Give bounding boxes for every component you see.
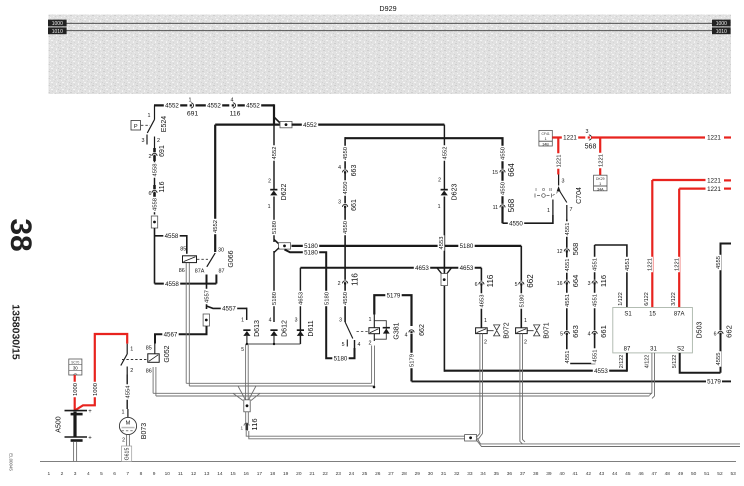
svg-text:3: 3 xyxy=(74,471,77,477)
svg-text:5: 5 xyxy=(342,342,345,348)
svg-text:1: 1 xyxy=(268,204,271,210)
svg-text:11: 11 xyxy=(493,205,498,211)
svg-text:5179: 5179 xyxy=(707,379,721,386)
svg-text:4550: 4550 xyxy=(509,220,523,227)
svg-text:M: M xyxy=(126,420,131,426)
grid baseline xyxy=(40,461,736,463)
svg-text:4: 4 xyxy=(87,471,90,477)
diode D613 xyxy=(241,318,261,345)
wire label 4552 a xyxy=(164,102,180,110)
node label 1000 left xyxy=(48,20,67,28)
svg-text:1: 1 xyxy=(241,318,244,324)
svg-text:1221: 1221 xyxy=(707,178,721,185)
svg-text:4558: 4558 xyxy=(153,198,159,211)
relay G381 xyxy=(369,315,401,347)
svg-text:A500: A500 xyxy=(56,416,63,432)
svg-text:568: 568 xyxy=(585,144,597,151)
svg-text:4551: 4551 xyxy=(565,294,571,307)
node label 1010 right xyxy=(712,27,731,35)
drawing number 1358030/15 xyxy=(9,304,21,360)
svg-text:4551: 4551 xyxy=(593,294,599,307)
wire label 4552 b xyxy=(206,102,222,110)
svg-text:116: 116 xyxy=(159,181,166,192)
pair from G066 pin86 xyxy=(186,263,189,386)
svg-text:12: 12 xyxy=(191,471,197,477)
svg-text:6: 6 xyxy=(714,332,717,338)
wire 4552 top run xyxy=(154,104,274,124)
splice on 4552 xyxy=(215,117,292,128)
svg-text:S2: S2 xyxy=(677,347,685,353)
svg-text:D623: D623 xyxy=(451,184,458,201)
svg-text:44: 44 xyxy=(612,471,618,477)
svg-text:2: 2 xyxy=(61,471,64,477)
svg-text:49: 49 xyxy=(678,471,684,477)
wire 5180 upper xyxy=(271,197,278,243)
wire 4558 b xyxy=(151,197,158,215)
svg-text:30: 30 xyxy=(73,366,78,371)
svg-text:9: 9 xyxy=(153,471,156,477)
svg-text:4553: 4553 xyxy=(594,368,608,375)
pair from G052 pin86 xyxy=(153,367,156,396)
svg-text:116: 116 xyxy=(350,273,359,286)
svg-text:3/122: 3/122 xyxy=(671,292,677,306)
svg-text:4555: 4555 xyxy=(716,353,722,366)
page number 38 xyxy=(4,218,37,251)
svg-text:38: 38 xyxy=(4,218,37,251)
svg-text:4552: 4552 xyxy=(272,147,278,160)
svg-text:41: 41 xyxy=(573,471,579,477)
connector 15/664 xyxy=(492,163,516,177)
red wire 1221 to DK29 xyxy=(597,138,604,176)
svg-text:1221: 1221 xyxy=(598,154,604,167)
svg-text:15: 15 xyxy=(230,471,236,477)
connector 3/661 xyxy=(338,199,358,211)
red wire 1221 drop to C704 xyxy=(555,138,562,175)
svg-text:B071: B071 xyxy=(544,322,551,338)
svg-text:52: 52 xyxy=(717,471,723,477)
wire 4551 to D503 S1 xyxy=(595,245,631,308)
wire 4550 to C704 pin1 xyxy=(503,215,553,227)
svg-text:7: 7 xyxy=(570,207,573,213)
svg-text:D929: D929 xyxy=(379,4,396,13)
connector 116 top xyxy=(230,111,241,118)
svg-text:31: 31 xyxy=(441,471,447,477)
svg-text:35: 35 xyxy=(494,471,500,477)
connector 6/116 inline xyxy=(149,181,167,198)
wire 4552 bus xyxy=(292,121,445,129)
ground G615 xyxy=(122,435,132,462)
svg-text:G381: G381 xyxy=(394,322,401,339)
wire 4558 branch to relay coil xyxy=(155,232,187,254)
svg-text:12: 12 xyxy=(557,249,563,255)
wire 4/122 from pin31 xyxy=(644,353,654,399)
svg-text:4: 4 xyxy=(358,342,361,348)
diode common bus xyxy=(241,343,300,353)
svg-text:4567: 4567 xyxy=(164,331,178,338)
svg-text:4551: 4551 xyxy=(593,258,599,271)
svg-text:34: 34 xyxy=(480,471,486,477)
wire 5180 to D612 xyxy=(269,248,279,324)
svg-text:4558: 4558 xyxy=(165,233,179,240)
svg-text:4554: 4554 xyxy=(125,385,131,399)
diode bus down pair xyxy=(246,344,249,400)
svg-text:4: 4 xyxy=(588,332,591,338)
diode D612 xyxy=(270,320,288,344)
svg-text:87A: 87A xyxy=(195,269,205,275)
svg-text:5180: 5180 xyxy=(324,292,330,305)
connector 5/663 b xyxy=(560,325,580,338)
svg-text:1000: 1000 xyxy=(73,383,79,396)
svg-text:D503: D503 xyxy=(697,322,704,339)
svg-text:31: 31 xyxy=(650,347,657,353)
svg-text:1221: 1221 xyxy=(707,135,721,142)
wire 1000 (top bus) xyxy=(67,22,713,24)
valve B072 xyxy=(476,322,511,345)
svg-text:18: 18 xyxy=(270,471,276,477)
svg-text:D612: D612 xyxy=(282,320,289,337)
svg-text:116: 116 xyxy=(230,111,241,118)
svg-text:28: 28 xyxy=(401,471,407,477)
svg-text:29: 29 xyxy=(415,471,421,477)
svg-text:1221: 1221 xyxy=(556,155,562,168)
svg-text:34A: 34A xyxy=(597,187,604,191)
svg-text:1: 1 xyxy=(484,318,487,324)
svg-text:5180: 5180 xyxy=(272,292,278,305)
svg-text:691: 691 xyxy=(187,111,199,118)
pair bottom run xyxy=(246,431,465,439)
svg-text:661: 661 xyxy=(599,325,608,338)
svg-text:4551: 4551 xyxy=(625,258,631,271)
wire 4551 chain xyxy=(563,220,598,365)
svg-text:568: 568 xyxy=(571,243,580,256)
svg-text:1: 1 xyxy=(122,410,125,416)
svg-text:4550: 4550 xyxy=(343,182,349,195)
svg-text:4552: 4552 xyxy=(213,220,219,233)
svg-text:48: 48 xyxy=(665,471,671,477)
svg-text:4551: 4551 xyxy=(593,350,599,363)
svg-text:4653: 4653 xyxy=(479,295,485,308)
component label G066 xyxy=(228,250,235,267)
svg-text:4: 4 xyxy=(231,98,234,104)
svg-text:4550: 4550 xyxy=(343,147,349,160)
svg-text:4: 4 xyxy=(269,318,272,324)
connector 2/691 inline xyxy=(149,145,167,161)
splice on 4557/4567 xyxy=(203,314,209,326)
connector 3/568 xyxy=(585,129,597,151)
svg-text:36: 36 xyxy=(507,471,513,477)
svg-text:33: 33 xyxy=(467,471,473,477)
svg-text:85: 85 xyxy=(180,246,186,252)
red wire 1221 to pin87A xyxy=(671,186,731,308)
svg-text:1: 1 xyxy=(240,426,243,431)
svg-text:37: 37 xyxy=(520,471,526,477)
svg-text:87: 87 xyxy=(219,269,225,275)
pair bus lower xyxy=(153,393,652,396)
svg-text:B073: B073 xyxy=(141,423,148,439)
svg-text:G066: G066 xyxy=(228,250,235,267)
valve B071 return pair xyxy=(520,334,525,444)
valve B071 chain xyxy=(515,246,535,328)
svg-text:4552: 4552 xyxy=(303,122,317,129)
red wire 1000 fuse branch xyxy=(71,375,78,410)
connector pin 1 of 691 xyxy=(187,98,195,110)
svg-text:1000: 1000 xyxy=(716,21,727,27)
component label G052 xyxy=(164,345,171,362)
wire 4558 a xyxy=(151,161,158,185)
svg-text:3: 3 xyxy=(588,281,591,287)
wire 5179 bus xyxy=(412,379,732,386)
svg-text:1221: 1221 xyxy=(563,135,577,142)
svg-text:39: 39 xyxy=(546,471,552,477)
node label 1000 right xyxy=(712,20,731,28)
svg-text:6: 6 xyxy=(149,191,152,197)
svg-text:568: 568 xyxy=(507,198,516,212)
svg-text:50: 50 xyxy=(691,471,697,477)
wire 4550 chain mid xyxy=(342,137,349,322)
svg-text:34B: 34B xyxy=(542,143,549,147)
svg-text:662: 662 xyxy=(419,324,426,336)
code EL00045 xyxy=(9,453,14,471)
wire 4653 run xyxy=(300,264,481,272)
svg-text:4551: 4551 xyxy=(565,259,571,272)
svg-text:2: 2 xyxy=(122,438,125,444)
svg-text:S1: S1 xyxy=(624,312,632,318)
svg-text:4653: 4653 xyxy=(415,265,429,272)
wire 4553 from D623 xyxy=(438,197,445,372)
svg-text:1000: 1000 xyxy=(52,21,63,27)
red wire 1221 from CF41 xyxy=(552,134,586,142)
connector 4/663 xyxy=(338,165,358,177)
svg-text:1000: 1000 xyxy=(93,383,99,396)
splice on 4553 xyxy=(437,268,452,286)
connector 4/662 xyxy=(405,324,426,338)
svg-text:1: 1 xyxy=(438,204,441,210)
svg-text:25: 25 xyxy=(362,471,368,477)
wire 5180 branch to E-switch xyxy=(285,249,355,363)
svg-text:16: 16 xyxy=(557,281,563,287)
switch E524 xyxy=(142,105,161,148)
connector pin 4 of 116 xyxy=(229,98,237,110)
svg-text:0: 0 xyxy=(542,187,545,192)
svg-text:116: 116 xyxy=(250,418,259,430)
pair bottom right run xyxy=(476,437,740,447)
svg-text:2: 2 xyxy=(524,340,527,346)
svg-text:5180: 5180 xyxy=(519,295,525,308)
svg-text:4555: 4555 xyxy=(716,256,722,269)
svg-text:P: P xyxy=(134,124,138,130)
battery ground wires xyxy=(74,442,77,462)
svg-text:19: 19 xyxy=(283,471,289,477)
svg-text:47: 47 xyxy=(651,471,657,477)
svg-text:5: 5 xyxy=(241,347,244,353)
svg-text:5: 5 xyxy=(100,471,103,477)
svg-text:21: 21 xyxy=(309,471,315,477)
grid numbers 1-53 xyxy=(47,471,736,477)
svg-text:4551: 4551 xyxy=(565,351,571,364)
svg-text:2: 2 xyxy=(369,341,372,347)
splice S1 on E524 chain xyxy=(151,216,157,228)
diode D622 xyxy=(268,125,288,210)
relay G066 contact xyxy=(195,125,225,284)
pair to 116 connector xyxy=(240,412,259,431)
svg-text:22: 22 xyxy=(322,471,328,477)
valve B072 return pair xyxy=(477,334,483,440)
svg-text:5/122: 5/122 xyxy=(672,355,678,369)
svg-text:1358030/15: 1358030/15 xyxy=(9,304,21,360)
red wire 1221 to pin15 xyxy=(644,178,731,308)
svg-text:30: 30 xyxy=(218,248,224,254)
connector 6/662 b xyxy=(714,325,734,338)
svg-text:13: 13 xyxy=(204,471,210,477)
wire 5/122 from pinS2 xyxy=(672,353,721,373)
svg-text:16: 16 xyxy=(244,471,250,477)
svg-text:EL00045: EL00045 xyxy=(9,453,14,471)
svg-text:87A: 87A xyxy=(674,312,685,318)
svg-text:3: 3 xyxy=(562,179,565,185)
svg-text:5: 5 xyxy=(515,282,518,288)
wire label 4552 c xyxy=(245,102,261,110)
splice bottom junction xyxy=(465,435,477,441)
svg-text:663: 663 xyxy=(571,325,580,338)
svg-text:662: 662 xyxy=(526,274,535,288)
svg-text:1: 1 xyxy=(47,471,50,477)
svg-text:664: 664 xyxy=(507,163,516,177)
svg-text:C704: C704 xyxy=(576,187,583,204)
svg-text:2: 2 xyxy=(268,179,271,185)
control unit D503 xyxy=(613,308,704,353)
svg-text:4/122: 4/122 xyxy=(644,355,650,369)
battery A500 xyxy=(56,409,93,442)
harness D929 label xyxy=(379,4,396,13)
svg-text:4552: 4552 xyxy=(246,103,260,110)
svg-text:11: 11 xyxy=(178,471,183,477)
svg-text:51: 51 xyxy=(704,471,710,477)
splice on 5180 xyxy=(274,240,291,250)
svg-text:116: 116 xyxy=(599,275,608,287)
svg-text:1: 1 xyxy=(547,208,550,214)
svg-text:691: 691 xyxy=(159,145,166,157)
svg-text:D611: D611 xyxy=(308,320,315,336)
wire 4553 bus xyxy=(444,367,627,375)
relay G066 coil xyxy=(179,246,197,274)
svg-text:B072: B072 xyxy=(504,322,511,338)
svg-text:43: 43 xyxy=(599,471,605,477)
svg-text:2: 2 xyxy=(157,138,160,144)
svg-text:663: 663 xyxy=(351,165,358,177)
svg-text:23: 23 xyxy=(336,471,342,477)
svg-text:10: 10 xyxy=(165,471,171,477)
svg-text:17: 17 xyxy=(257,471,263,477)
svg-text:5179: 5179 xyxy=(387,292,401,299)
svg-text:E524: E524 xyxy=(161,116,168,132)
svg-text:DK29: DK29 xyxy=(596,177,605,181)
svg-text:5180: 5180 xyxy=(334,355,348,362)
svg-text:4550: 4550 xyxy=(343,221,349,234)
svg-text:6: 6 xyxy=(475,282,478,288)
svg-text:15: 15 xyxy=(649,312,656,318)
switch actuator P xyxy=(131,121,150,131)
harness band xyxy=(49,15,732,95)
wire 1010 (bottom bus) xyxy=(67,30,713,32)
svg-text:3: 3 xyxy=(338,200,341,206)
svg-text:86: 86 xyxy=(146,368,152,374)
svg-text:3: 3 xyxy=(339,318,342,324)
wire 4557 to D613 xyxy=(207,305,247,320)
svg-text:2: 2 xyxy=(484,340,487,346)
wire 4555 xyxy=(714,244,731,373)
svg-text:8: 8 xyxy=(140,471,143,477)
wire 5180 bus to B071 xyxy=(292,242,522,250)
svg-text:4: 4 xyxy=(338,165,341,171)
svg-text:G615: G615 xyxy=(124,448,130,461)
svg-text:4557: 4557 xyxy=(205,290,211,303)
svg-text:664: 664 xyxy=(571,275,580,288)
svg-text:4553: 4553 xyxy=(439,237,445,250)
svg-text:1: 1 xyxy=(524,318,527,324)
svg-text:SC70: SC70 xyxy=(71,360,79,364)
connector 16/664 b xyxy=(557,275,581,288)
svg-text:24: 24 xyxy=(349,471,355,477)
svg-text:4558: 4558 xyxy=(153,164,159,177)
connector 3/116 b xyxy=(588,275,609,287)
svg-text:3: 3 xyxy=(142,138,145,144)
svg-text:1: 1 xyxy=(369,317,372,323)
node label 1010 left xyxy=(48,27,67,35)
svg-text:32: 32 xyxy=(454,471,460,477)
svg-text:4550: 4550 xyxy=(343,292,349,305)
svg-text:5180: 5180 xyxy=(272,221,278,234)
svg-text:D622: D622 xyxy=(281,184,288,201)
svg-text:6/122: 6/122 xyxy=(644,292,650,306)
splice fan junction xyxy=(233,386,260,412)
svg-text:2: 2 xyxy=(438,178,441,184)
svg-text:CF41: CF41 xyxy=(541,132,549,136)
svg-text:38: 38 xyxy=(533,471,539,477)
svg-text:1: 1 xyxy=(189,98,192,104)
svg-text:662: 662 xyxy=(725,325,734,338)
wire 4567 to G052 xyxy=(155,326,207,344)
svg-text:1221: 1221 xyxy=(674,258,680,271)
svg-text:4: 4 xyxy=(405,333,408,339)
relay G052 coil xyxy=(146,344,159,375)
pair bus upper xyxy=(186,346,375,389)
svg-text:5180: 5180 xyxy=(304,250,318,257)
svg-text:2: 2 xyxy=(130,368,133,374)
connector 691 xyxy=(187,111,199,118)
svg-text:4557: 4557 xyxy=(222,306,236,313)
svg-text:1010: 1010 xyxy=(52,29,63,35)
wire 4557 vertical xyxy=(203,284,210,309)
svg-text:1221: 1221 xyxy=(648,258,654,271)
wire 4554 xyxy=(122,375,132,418)
svg-text:87: 87 xyxy=(624,347,631,353)
svg-text:4653: 4653 xyxy=(298,292,304,305)
svg-text:4552: 4552 xyxy=(207,103,221,110)
svg-text:45: 45 xyxy=(625,471,631,477)
valve B072 chain xyxy=(475,268,495,328)
fuse CF41/34B xyxy=(539,130,552,146)
component label E524 xyxy=(161,116,168,132)
wire 5179 down xyxy=(408,334,415,381)
red wire 1221 long xyxy=(591,135,731,142)
svg-text:27: 27 xyxy=(388,471,394,477)
svg-text:1010: 1010 xyxy=(716,29,727,35)
svg-text:86: 86 xyxy=(179,268,185,274)
svg-text:5180: 5180 xyxy=(460,243,474,250)
svg-text:1: 1 xyxy=(148,113,151,119)
svg-text:2: 2 xyxy=(338,281,341,287)
svg-text:5179: 5179 xyxy=(410,354,416,367)
